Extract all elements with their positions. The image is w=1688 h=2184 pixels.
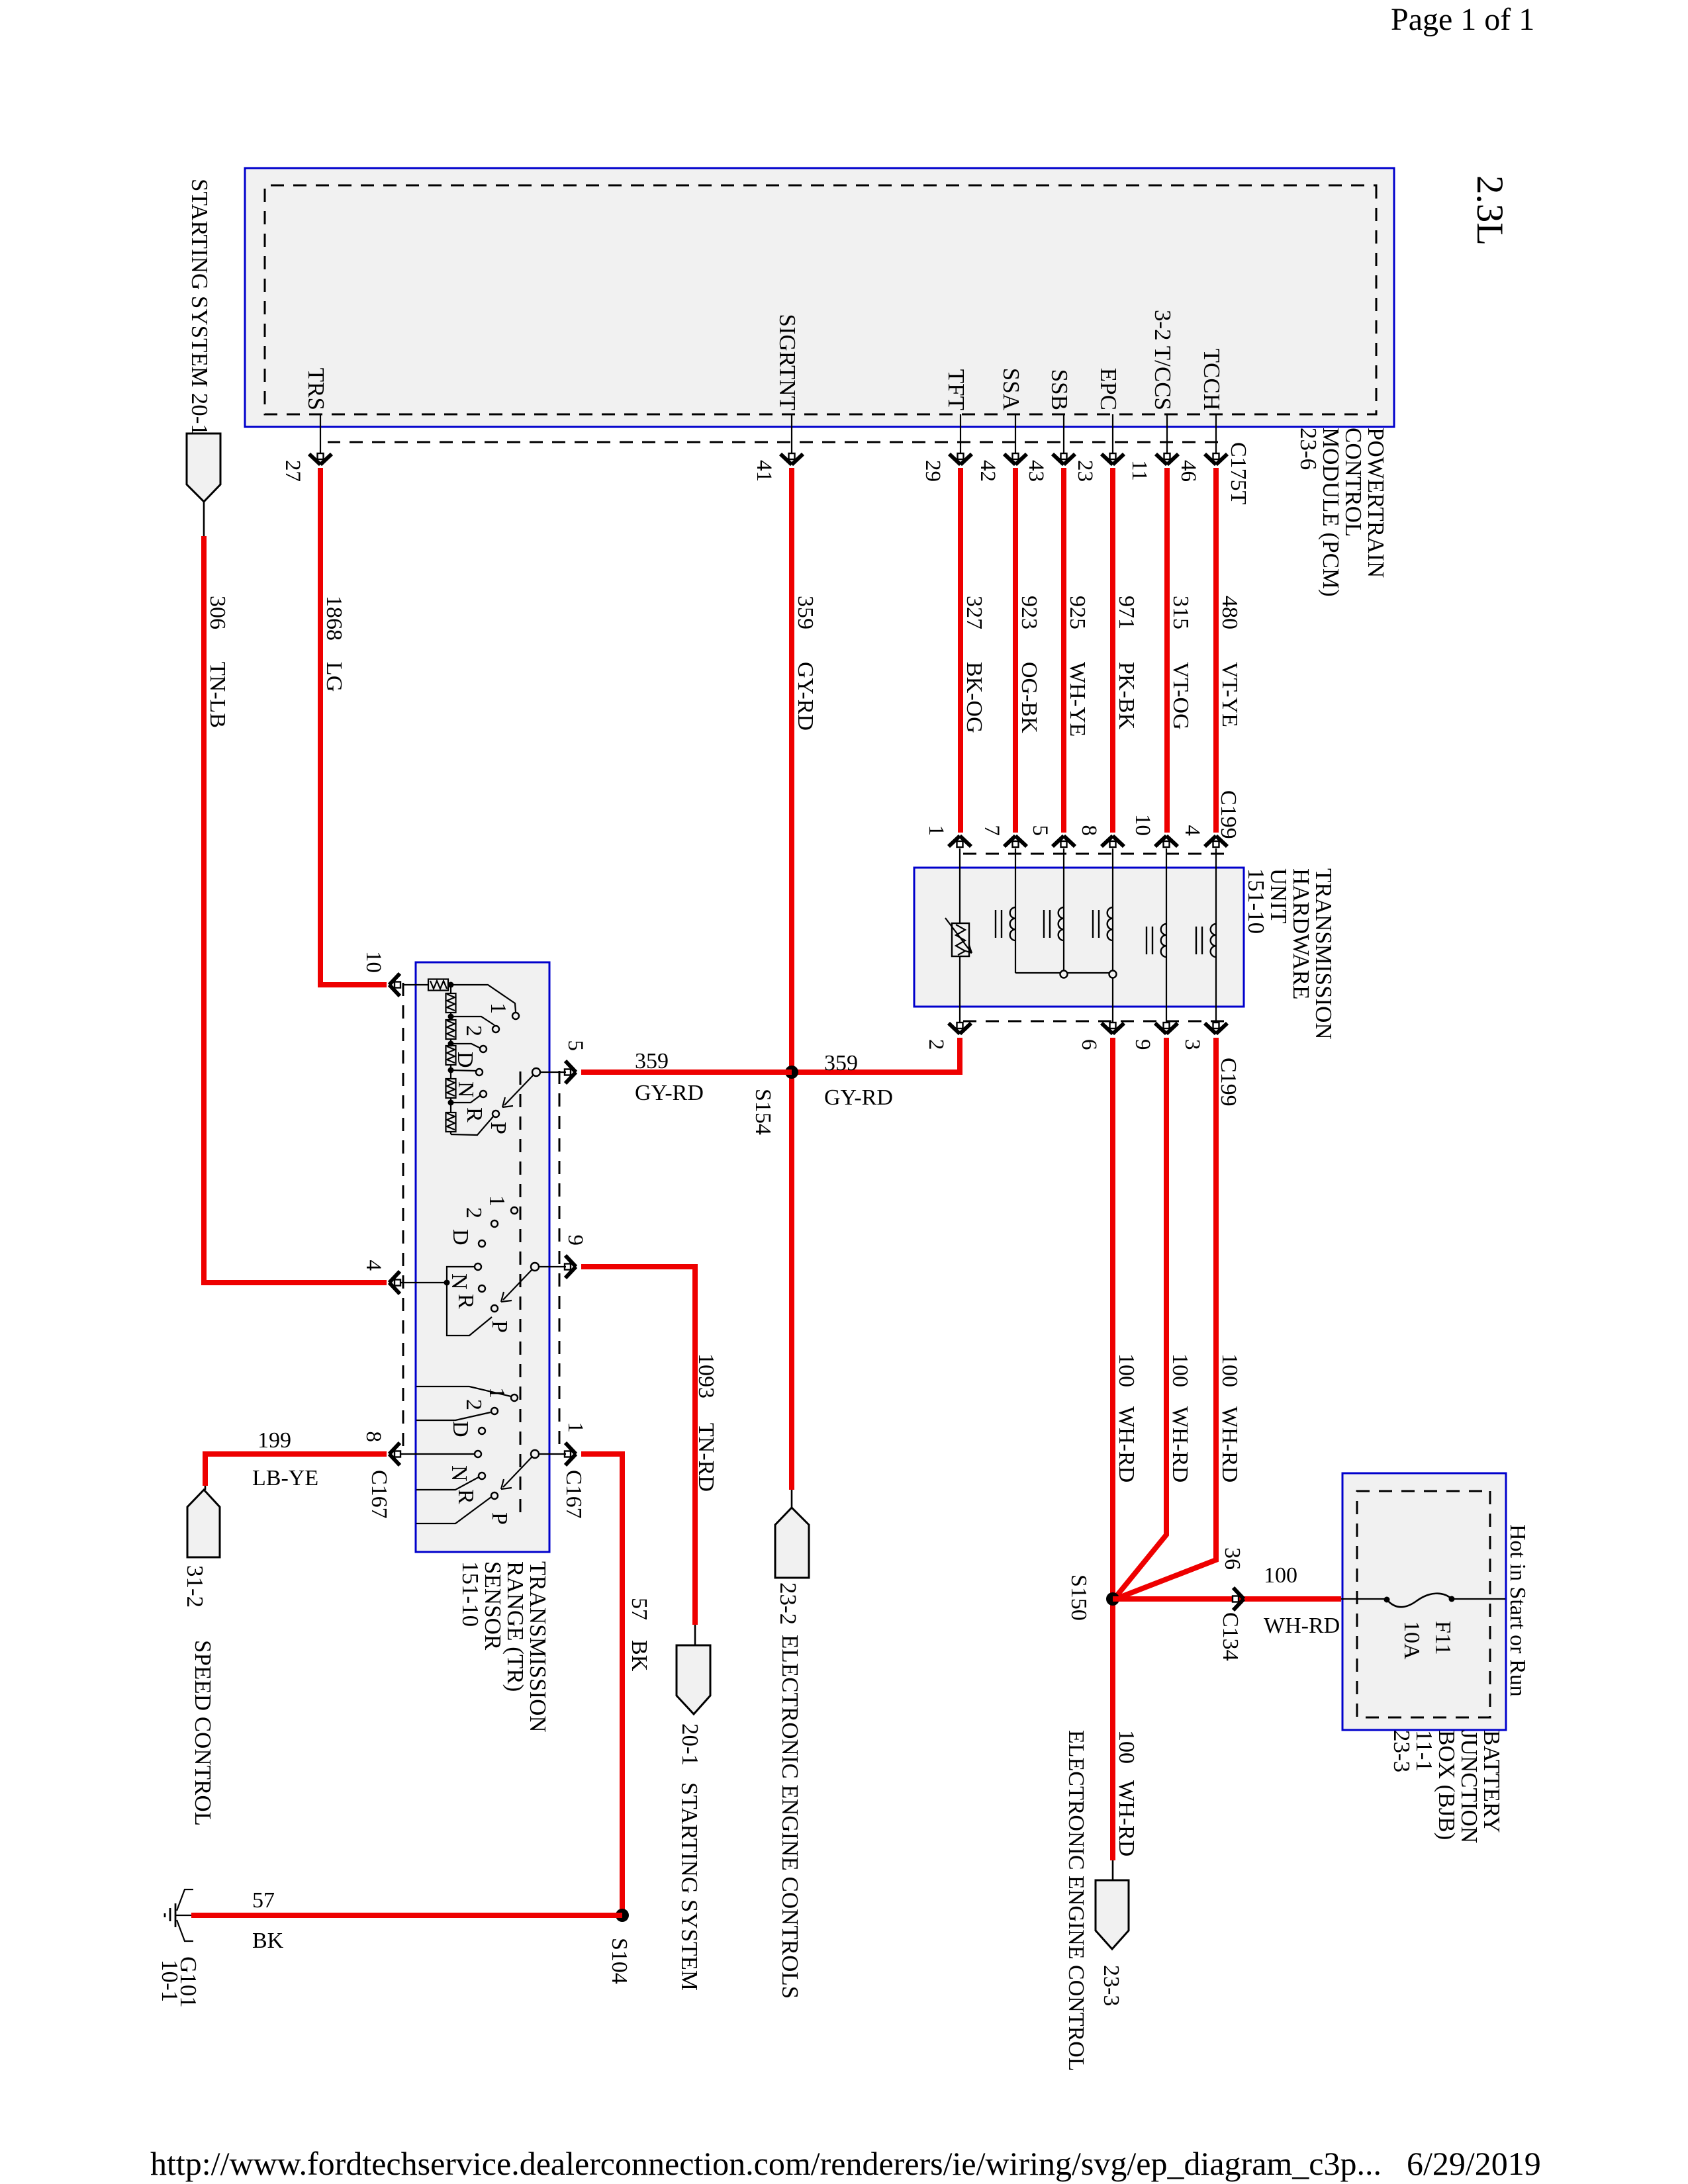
svg-text:23-6: 23-6 — [1295, 428, 1321, 470]
svg-text:GY-RD: GY-RD — [824, 1085, 893, 1110]
svg-text:GY-RD: GY-RD — [793, 662, 818, 731]
svg-text:5: 5 — [1028, 825, 1052, 837]
svg-text:ELECTRONIC ENGINE CONTROL: ELECTRONIC ENGINE CONTROL — [1064, 1730, 1088, 2071]
svg-text:359: 359 — [635, 1049, 669, 1073]
svg-text:ELECTRONIC ENGINE CONTROLS: ELECTRONIC ENGINE CONTROLS — [777, 1635, 803, 1999]
svg-text:23-3: 23-3 — [1389, 1730, 1415, 1772]
svg-text:23-2: 23-2 — [775, 1582, 801, 1625]
svg-text:36: 36 — [1220, 1547, 1244, 1570]
svg-text:971: 971 — [1114, 596, 1139, 629]
svg-text:8: 8 — [361, 1432, 385, 1443]
svg-text:http://www.fordtechservice.dea: http://www.fordtechservice.dealerconnect… — [150, 2145, 1382, 2182]
svg-text:306: 306 — [205, 596, 230, 629]
svg-text:C167: C167 — [367, 1470, 391, 1519]
svg-text:WH-RD: WH-RD — [1168, 1406, 1192, 1482]
svg-text:BK: BK — [252, 1929, 284, 1953]
svg-text:925: 925 — [1065, 596, 1090, 629]
svg-text:R: R — [453, 1294, 478, 1309]
svg-text:100: 100 — [1264, 1563, 1297, 1588]
svg-text:C199: C199 — [1216, 790, 1241, 839]
svg-text:EPC: EPC — [1096, 368, 1121, 410]
svg-text:S150: S150 — [1066, 1574, 1091, 1621]
svg-text:WH-RD: WH-RD — [1217, 1406, 1242, 1482]
svg-text:STARTING SYSTEM: STARTING SYSTEM — [677, 1782, 702, 1991]
svg-text:9: 9 — [563, 1235, 587, 1246]
svg-text:Hot in Start or Run: Hot in Start or Run — [1505, 1524, 1530, 1697]
svg-text:5: 5 — [563, 1040, 587, 1052]
svg-text:11: 11 — [1127, 460, 1151, 481]
svg-text:199: 199 — [258, 1428, 291, 1453]
svg-text:VT-YE: VT-YE — [1217, 662, 1242, 727]
svg-text:WH-RD: WH-RD — [1114, 1406, 1139, 1482]
svg-text:TN-RD: TN-RD — [694, 1423, 718, 1492]
svg-text:PK-BK: PK-BK — [1114, 662, 1139, 729]
svg-text:151-10: 151-10 — [457, 1561, 483, 1627]
svg-text:480: 480 — [1217, 596, 1242, 629]
svg-text:1: 1 — [563, 1422, 587, 1433]
svg-text:1093: 1093 — [694, 1353, 718, 1398]
svg-text:10A: 10A — [1399, 1621, 1424, 1660]
svg-text:57: 57 — [252, 1888, 275, 1913]
svg-text:10: 10 — [361, 951, 385, 973]
svg-text:100: 100 — [1217, 1353, 1242, 1387]
svg-text:10-1: 10-1 — [157, 1960, 183, 2002]
svg-text:D: D — [448, 1229, 473, 1246]
svg-text:6/29/2019: 6/29/2019 — [1407, 2145, 1541, 2182]
svg-text:C199: C199 — [1216, 1058, 1241, 1107]
svg-text:23: 23 — [1073, 460, 1097, 482]
svg-text:2: 2 — [461, 1025, 486, 1036]
svg-text:1868: 1868 — [322, 596, 346, 641]
svg-text:SSA: SSA — [998, 368, 1024, 411]
svg-text:9: 9 — [1131, 1039, 1154, 1050]
svg-text:7: 7 — [980, 825, 1004, 837]
svg-text:100: 100 — [1114, 1730, 1139, 1764]
svg-text:R: R — [453, 1489, 478, 1504]
svg-text:S154: S154 — [751, 1089, 775, 1135]
svg-text:315: 315 — [1168, 596, 1193, 629]
svg-text:20-1: 20-1 — [677, 1723, 703, 1766]
svg-text:41: 41 — [752, 460, 776, 482]
svg-text:TRS: TRS — [303, 368, 329, 410]
svg-text:10: 10 — [1131, 814, 1154, 836]
svg-text:100: 100 — [1114, 1353, 1139, 1387]
svg-text:3-2 T/CCS: 3-2 T/CCS — [1150, 310, 1176, 410]
svg-text:D: D — [448, 1421, 473, 1437]
svg-text:SIGRTNT: SIGRTNT — [774, 314, 800, 410]
svg-text:N: N — [447, 1465, 471, 1482]
svg-text:SPEED CONTROL: SPEED CONTROL — [190, 1640, 216, 1826]
svg-text:VT-OG: VT-OG — [1168, 662, 1193, 730]
svg-text:23-3: 23-3 — [1099, 1965, 1123, 2006]
svg-text:TCCH: TCCH — [1199, 349, 1225, 410]
svg-text:BK-OG: BK-OG — [962, 662, 986, 733]
svg-text:4: 4 — [1180, 825, 1204, 837]
svg-text:2: 2 — [461, 1399, 486, 1410]
svg-text:2.3L: 2.3L — [1469, 175, 1511, 246]
svg-text:359: 359 — [793, 596, 818, 629]
svg-text:43: 43 — [1024, 460, 1048, 482]
svg-text:3: 3 — [1180, 1039, 1204, 1050]
svg-text:S104: S104 — [607, 1938, 632, 1984]
svg-text:1: 1 — [924, 825, 948, 837]
svg-text:1: 1 — [485, 1195, 509, 1206]
svg-text:151-10: 151-10 — [1243, 868, 1269, 934]
svg-text:OG-BK: OG-BK — [1017, 662, 1041, 733]
svg-text:C167: C167 — [561, 1470, 586, 1519]
svg-text:31-2: 31-2 — [182, 1565, 208, 1608]
svg-text:P: P — [486, 1122, 510, 1134]
svg-text:N: N — [447, 1273, 471, 1290]
svg-text:STARTING SYSTEM 20-1: STARTING SYSTEM 20-1 — [187, 179, 212, 435]
svg-text:C134: C134 — [1218, 1612, 1243, 1661]
svg-text:2: 2 — [461, 1207, 486, 1218]
svg-text:359: 359 — [824, 1051, 858, 1075]
svg-text:TN-LB: TN-LB — [205, 662, 230, 728]
svg-text:29: 29 — [921, 460, 945, 482]
svg-text:2: 2 — [924, 1039, 948, 1050]
svg-text:R: R — [462, 1107, 487, 1122]
svg-text:GY-RD: GY-RD — [635, 1081, 704, 1105]
svg-text:4: 4 — [361, 1260, 385, 1271]
svg-text:8: 8 — [1077, 825, 1101, 837]
svg-text:N: N — [453, 1081, 478, 1098]
svg-text:42: 42 — [976, 460, 1000, 482]
svg-text:100: 100 — [1168, 1353, 1192, 1387]
svg-text:SSB: SSB — [1047, 369, 1072, 410]
svg-text:WH-RD: WH-RD — [1264, 1614, 1340, 1638]
svg-text:57: 57 — [627, 1598, 651, 1620]
svg-text:WH-RD: WH-RD — [1114, 1780, 1139, 1856]
svg-text:Page 1 of 1: Page 1 of 1 — [1391, 2, 1534, 37]
svg-text:27: 27 — [281, 460, 305, 482]
svg-text:46: 46 — [1176, 460, 1200, 482]
svg-text:P: P — [487, 1320, 512, 1333]
svg-text:6: 6 — [1077, 1039, 1101, 1050]
svg-text:327: 327 — [962, 596, 986, 629]
svg-text:923: 923 — [1017, 596, 1041, 629]
svg-text:BK: BK — [627, 1640, 651, 1672]
svg-text:F11: F11 — [1430, 1621, 1455, 1655]
svg-text:1: 1 — [486, 1003, 510, 1014]
svg-text:TFT: TFT — [943, 369, 969, 410]
svg-text:LG: LG — [322, 662, 346, 692]
svg-text:WH-YE: WH-YE — [1065, 662, 1090, 737]
svg-text:P: P — [487, 1512, 512, 1525]
svg-text:LB-YE: LB-YE — [252, 1466, 318, 1490]
svg-text:C175T: C175T — [1226, 442, 1250, 505]
